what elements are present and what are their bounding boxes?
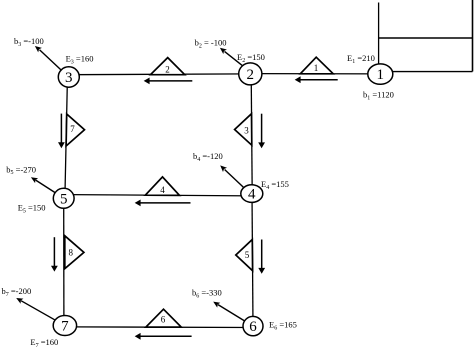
- svg-text:5: 5: [60, 191, 68, 207]
- wire right-edge vertical: [472, 0, 474, 72]
- wire edge 2-3: [71, 73, 250, 76]
- svg-text:7: 7: [70, 124, 75, 134]
- svg-text:6: 6: [161, 315, 166, 325]
- flow arrow arc 7: [58, 114, 65, 149]
- svg-text:2: 2: [165, 65, 170, 75]
- arc marker 1: [300, 57, 333, 74]
- arc marker 4: [145, 177, 179, 196]
- svg-text:4: 4: [248, 187, 256, 203]
- flow arrow arc 8: [51, 237, 58, 271]
- svg-text:3: 3: [65, 70, 73, 86]
- wire edge 6-7: [72, 326, 253, 329]
- flow arrow arc 1: [295, 76, 338, 83]
- node 4: [241, 185, 263, 203]
- flow arrow arc 3: [258, 114, 265, 149]
- node 6: [243, 316, 263, 335]
- external demand arrow node 3: [35, 46, 61, 70]
- node 5: [53, 188, 74, 208]
- wire edge 4-6: [252, 194, 253, 327]
- svg-text:6: 6: [249, 319, 257, 335]
- svg-text:1: 1: [314, 63, 319, 73]
- arc marker 8: [65, 236, 84, 269]
- svg-text:7: 7: [61, 319, 69, 335]
- svg-text:2: 2: [247, 67, 255, 83]
- svg-text:3: 3: [244, 126, 249, 136]
- node 2: [239, 63, 262, 85]
- external demand arrow node 7: [16, 298, 55, 320]
- external demand arrow node 4: [220, 165, 243, 187]
- wire edge 3-5: [65, 84, 67, 193]
- svg-text:4: 4: [160, 185, 165, 195]
- wire edge 4-5: [70, 195, 252, 196]
- node 3: [58, 67, 79, 87]
- flow arrow arc 2: [144, 78, 193, 85]
- arc marker 6: [146, 309, 181, 327]
- external demand arrow node 2: [220, 48, 243, 66]
- arc marker 2: [151, 58, 185, 75]
- svg-text:8: 8: [69, 248, 74, 258]
- node 1: [368, 64, 393, 84]
- wire node 1 to right edge: [380, 71, 472, 73]
- svg-text:5: 5: [245, 250, 250, 260]
- arc marker 7: [66, 114, 84, 146]
- wire edge 5-7: [63, 198, 65, 325]
- wire top-right vertical into node 1: [378, 3, 380, 66]
- flow arrow arc 5: [258, 240, 265, 274]
- wire edge 1-2: [250, 73, 380, 75]
- external demand arrow node 5: [31, 177, 55, 192]
- node 7: [53, 316, 76, 336]
- flow arrow arc 6: [135, 333, 192, 340]
- wire edge 2-4: [251, 74, 252, 194]
- wire top-right horizontal upper: [379, 37, 473, 39]
- external demand arrow node 6: [213, 302, 244, 321]
- svg-text:1: 1: [377, 67, 385, 83]
- arc marker 5: [236, 240, 253, 271]
- arc marker 3: [235, 114, 252, 146]
- flow arrow arc 4: [135, 200, 191, 207]
